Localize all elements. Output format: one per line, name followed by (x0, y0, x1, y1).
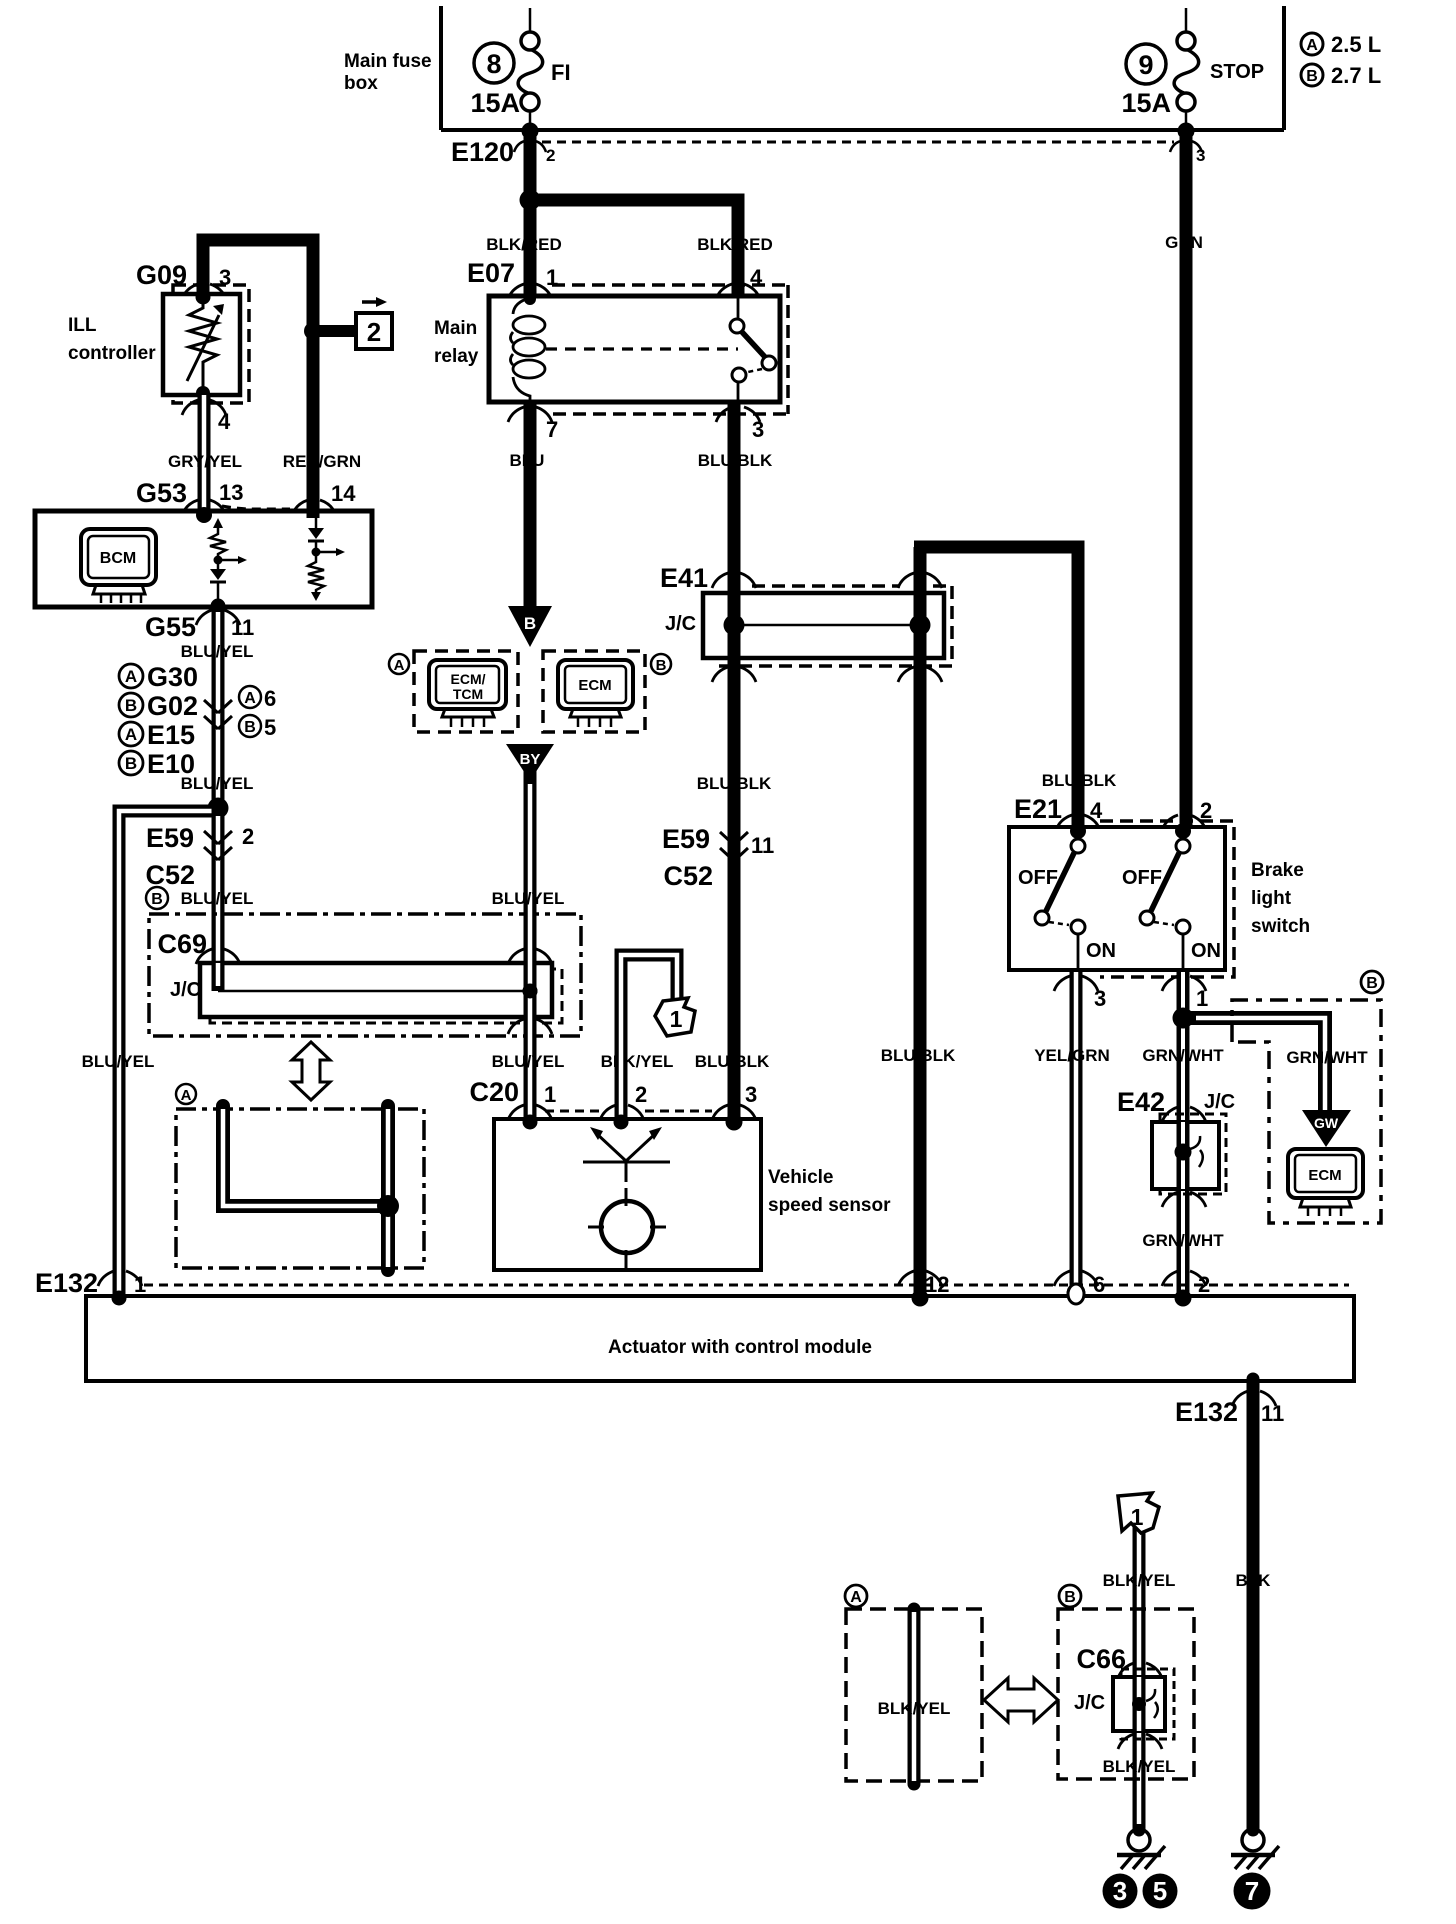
hooks at E42 exit (1162, 1192, 1206, 1207)
svg-text:14: 14 (331, 481, 356, 506)
hooks at C69 right wire entry (508, 949, 552, 964)
svg-text:BLU/YEL: BLU/YEL (181, 642, 254, 661)
wire: thick double vertical inside region A (381, 1106, 395, 1270)
connector stack labels: circled A G30 (119, 664, 143, 688)
svg-text:ON: ON (1086, 940, 1116, 962)
legend circled A 2.5 L (1301, 33, 1323, 55)
svg-text:speed sensor: speed sensor (768, 1195, 891, 1216)
E42 J/C solid box (1152, 1122, 1219, 1189)
svg-text:E21: E21 (1014, 794, 1062, 824)
svg-text:BLU/BLK: BLU/BLK (697, 774, 772, 793)
svg-text:E132: E132 (35, 1268, 98, 1298)
ECM/TCM dashed box (414, 651, 518, 732)
circled B (right region) (1361, 971, 1383, 993)
hooks at E21 pin 1 (1162, 976, 1206, 991)
svg-text:GRN/WHT: GRN/WHT (1286, 1048, 1368, 1067)
wire: GRN/WHT double from E21 pin 1 to actuator pin 2 (1177, 970, 1190, 1298)
svg-text:GRY/YEL: GRY/YEL (168, 452, 242, 471)
node: coil top pin dot (524, 293, 536, 305)
ECM module icon (B branch) (1288, 1149, 1363, 1216)
node: G09 pin 3 dot (196, 290, 211, 305)
svg-text:FI: FI (551, 60, 571, 85)
svg-text:E59: E59 (662, 824, 710, 854)
svg-text:ECM: ECM (1308, 1167, 1341, 1184)
wire: GRY/YEL double line G09 pin4 to G53 pin13 (198, 395, 211, 516)
actuator with control module box (86, 1296, 1354, 1381)
hooks at actuator pin 6 (1054, 1271, 1098, 1286)
fuse 9 feed wire (1185, 8, 1188, 33)
GW arrow (1302, 1110, 1351, 1147)
hooks at C69 left wire entry (196, 949, 240, 964)
svg-text:A: A (181, 1087, 192, 1104)
E41 connector dashed face lines (752, 584, 952, 588)
svg-text:B: B (125, 754, 137, 773)
svg-text:BLU/YEL: BLU/YEL (181, 774, 254, 793)
hooks at C66 exit (1118, 1734, 1162, 1749)
svg-text:BLU/BLK: BLU/BLK (1042, 771, 1117, 790)
main fuse box right border (1282, 6, 1286, 130)
svg-text:BLU/YEL: BLU/YEL (181, 889, 254, 908)
svg-text:BLU/YEL: BLU/YEL (82, 1052, 155, 1071)
svg-text:15A: 15A (1121, 88, 1171, 118)
svg-text:4: 4 (218, 409, 231, 434)
svg-text:C69: C69 (157, 929, 207, 959)
circled A E15 (119, 722, 143, 746)
svg-text:3: 3 (1094, 986, 1106, 1011)
wire: BLK/YEL double from flag 1 to ground via C66 (1133, 1522, 1146, 1830)
svg-text:OFF: OFF (1122, 867, 1162, 889)
YEL/GRN end loop (1068, 1284, 1084, 1304)
svg-text:E42: E42 (1117, 1087, 1165, 1117)
main fuse box bottom edge (441, 128, 1284, 132)
E42 dashed duplicate box (1160, 1114, 1226, 1194)
node: actuator pin 1 dot (112, 1291, 127, 1306)
svg-text:BLU/YEL: BLU/YEL (492, 1052, 565, 1071)
ECM module icon (558, 660, 633, 727)
wire: YEL/GRN double from E21 pin 3 to actuator pin 6 (1070, 970, 1083, 1288)
BCM box (35, 511, 372, 607)
node: fuse9 output junction dot (1178, 123, 1194, 139)
node: E120 junction dot (522, 123, 538, 139)
wire: thick double L inside region A (223, 1106, 388, 1206)
svg-text:STOP: STOP (1210, 61, 1264, 83)
svg-text:BCM: BCM (100, 550, 136, 567)
wire: BLU/BLK through E41 (left) (728, 593, 741, 658)
hooks at E07 pin 1 (508, 284, 552, 299)
svg-text:E132: E132 (1175, 1397, 1238, 1427)
svg-text:12: 12 (925, 1272, 949, 1297)
svg-text:J/C: J/C (1074, 1692, 1105, 1714)
circled B (ECM) (651, 654, 671, 674)
wire: BLU/BLK thick from E07 pin 3 down to C20 pin 3 (728, 402, 741, 1121)
svg-text:G02: G02 (147, 691, 198, 721)
svg-text:light: light (1251, 888, 1292, 909)
svg-text:11: 11 (231, 615, 254, 640)
relay switch (730, 296, 776, 402)
svg-text:11: 11 (1261, 1401, 1284, 1426)
wire: GRN/WHT double branch to ECM (B) (1188, 1018, 1325, 1114)
circled B G02 (119, 693, 143, 717)
svg-text:2.7 L: 2.7 L (1331, 63, 1381, 88)
svg-text:C66: C66 (1076, 1644, 1126, 1674)
svg-text:5: 5 (264, 715, 276, 740)
hooks at G09 pin 3 (182, 284, 226, 299)
svg-text:controller: controller (68, 343, 156, 364)
svg-text:J/C: J/C (1204, 1091, 1235, 1113)
svg-text:13: 13 (219, 480, 243, 505)
BCM module icon (81, 529, 156, 603)
node: junction dot at RED/GRN branch to key 2 (304, 322, 322, 340)
svg-text:ECM/: ECM/ (451, 671, 486, 687)
vehicle speed sensor box (494, 1119, 761, 1270)
svg-text:A: A (1306, 37, 1318, 54)
hooks at pin 3 (GRN) (1170, 141, 1202, 152)
node: region A junction dot (377, 1195, 399, 1217)
svg-text:2.5 L: 2.5 L (1331, 32, 1381, 57)
sensor generator circle with ticks (588, 1201, 666, 1268)
svg-text:3: 3 (745, 1082, 757, 1107)
connector G53 dashed line pins 13-14 (222, 506, 290, 509)
E21 right switch (1140, 827, 1190, 970)
hooks at E21 pin 4 (1056, 815, 1100, 830)
node: E41 right junction dot (910, 615, 931, 636)
svg-text:BLK/YEL: BLK/YEL (601, 1052, 674, 1071)
svg-text:Main: Main (434, 318, 477, 339)
E21 left switch (1035, 827, 1085, 970)
wire: BLU/YEL double from BY arrow through C69 to C20 pin 1 (524, 770, 537, 1121)
region A dashed box (bottom) (846, 1609, 982, 1781)
fuse number circle 8 (474, 43, 514, 83)
chevron splice marks at E59/C52 (left) (204, 831, 232, 860)
svg-text:BLK/YEL: BLK/YEL (1103, 1757, 1176, 1776)
svg-text:5: 5 (1153, 1876, 1167, 1906)
fuse 8 (15A FI) symbol (521, 32, 539, 50)
svg-text:E15: E15 (147, 720, 195, 750)
ground symbol (left, BLK/YEL) (1117, 1829, 1165, 1869)
svg-text:G30: G30 (147, 662, 198, 692)
wire: branch to key box 2 (313, 325, 356, 337)
wire: BLU/YEL double from junction down to C69 (212, 808, 225, 991)
C20 connector dashed line (545, 1110, 712, 1113)
ground number ball 3 (1103, 1874, 1138, 1909)
svg-text:ECM: ECM (578, 677, 611, 694)
circled B pin 5 (239, 715, 261, 737)
svg-text:box: box (344, 73, 378, 94)
svg-text:Brake: Brake (1251, 860, 1304, 881)
ECM/TCM module icon (429, 660, 506, 727)
continuation flag 1 (at C20 BLK/YEL) (655, 998, 695, 1036)
svg-text:G55: G55 (145, 612, 196, 642)
hooks at G53 pin 13 (182, 500, 226, 515)
svg-text:ON: ON (1191, 940, 1221, 962)
hooks at E07 pin 3 (716, 407, 760, 422)
wire: BLK/YEL through C66 (1133, 1677, 1146, 1731)
wire: thick bar from E41 right top to E21 pin 4 (914, 547, 1078, 830)
svg-text:C20: C20 (469, 1077, 519, 1107)
connector E120 dashed face line (514, 123, 1202, 152)
node: GRN/WHT branch junction dot (1173, 1008, 1194, 1029)
hooks at C20 pin 1 (508, 1105, 552, 1120)
continuation flag 1 (bottom) (1118, 1493, 1159, 1533)
wire: BLU/BLK through E41 (right) to actuator pin 12 (914, 547, 927, 1298)
C69 J/C solid box (200, 963, 552, 1017)
svg-text:Main fuse: Main fuse (344, 51, 432, 72)
node: G55 pin 11 dot (211, 599, 226, 614)
svg-text:ILL: ILL (68, 315, 97, 336)
hooks at E42 entry (1162, 1107, 1206, 1122)
svg-text:GRN: GRN (1165, 233, 1203, 252)
hooks at actuator pin 12 (898, 1271, 942, 1286)
node: BLU/YEL junction dot (208, 798, 229, 819)
wire: BLU thick from E07 pin 7 to B arrow (524, 402, 537, 610)
E41 internal bus line (734, 624, 920, 627)
ECM dashed box (543, 651, 645, 732)
hooks at E21 pin 3 (1054, 976, 1098, 991)
E41 dashed duplicate box right/bottom (712, 586, 952, 666)
svg-text:Vehicle: Vehicle (768, 1167, 834, 1188)
wire: GRN thick from fuse 9 to E21 pin 2 (1180, 130, 1193, 830)
relay coil (511, 298, 546, 402)
circled B (bottom region) (1059, 1585, 1081, 1607)
svg-text:C52: C52 (145, 860, 195, 890)
main fuse box left border (439, 6, 443, 130)
svg-text:B: B (244, 719, 256, 736)
svg-text:2: 2 (546, 146, 555, 165)
region B dashed box (bottom) (1058, 1609, 1194, 1779)
svg-text:11: 11 (751, 833, 774, 858)
C69 outer dash-dot box (149, 914, 581, 1036)
svg-text:BLK: BLK (1236, 1571, 1272, 1590)
svg-text:BLK/YEL: BLK/YEL (878, 1699, 951, 1718)
relay actuation dashed line (546, 347, 738, 350)
hooks at G09 pin 4 (182, 400, 226, 415)
svg-text:GRN/WHT: GRN/WHT (1142, 1046, 1224, 1065)
svg-text:switch: switch (1251, 916, 1310, 937)
node: C20 pin 3 dot (726, 1114, 743, 1131)
hooks at E41 left wire top (712, 573, 756, 588)
svg-text:E07: E07 (467, 258, 515, 288)
wire: BLK/YEL double stub inside region A (908, 1609, 921, 1784)
svg-text:GW: GW (1314, 1115, 1339, 1131)
wire: thick branch bar to E07 pin 4 (528, 200, 738, 296)
svg-text:1: 1 (670, 1006, 683, 1032)
wire: BLK/YEL n-loop from C20 pin 2 (621, 955, 677, 1121)
svg-text:YEL/GRN: YEL/GRN (1034, 1046, 1110, 1065)
node: C66 junction dot with tails (1132, 1697, 1146, 1711)
hooks at G53 pin 14 (292, 500, 336, 515)
C66 dashed duplicate box (1121, 1669, 1174, 1739)
C69 internal bus line (218, 990, 530, 993)
C66 J/C solid box (1113, 1677, 1165, 1731)
svg-text:E41: E41 (660, 563, 708, 593)
hooks at E07 pin 7 (508, 407, 552, 422)
fuse 9 (15A STOP) symbol (1177, 32, 1195, 50)
hooks at C66 entry (1118, 1663, 1162, 1678)
circled A pin 6 (239, 686, 261, 708)
svg-text:BLU/YEL: BLU/YEL (492, 889, 565, 908)
ground symbol (right, BLK) (1231, 1829, 1279, 1869)
node: actuator pin 12 dot (912, 1290, 929, 1307)
BY arrow (506, 744, 554, 781)
wire: thick loop from G09 pin 3 up over to RED/GRN (203, 240, 313, 515)
main relay box E07 (489, 296, 780, 402)
svg-text:E59: E59 (146, 823, 194, 853)
svg-text:BY: BY (520, 751, 541, 768)
sensor symbol arrows (583, 1134, 670, 1206)
node: actuator pin 2 dot (1175, 1290, 1192, 1307)
E41 J/C solid box (703, 593, 944, 658)
fuse 8 feed wire (529, 8, 532, 33)
svg-text:2: 2 (242, 824, 254, 849)
circled A (bottom region) (845, 1585, 867, 1607)
svg-text:15A: 15A (470, 88, 520, 118)
hooks at E21 pin 2 (1162, 815, 1206, 830)
E21 connector dashed outline (1100, 821, 1234, 977)
svg-text:BLK/RED: BLK/RED (697, 235, 773, 254)
circled B (C52 left) (146, 887, 168, 909)
svg-text:B: B (151, 891, 163, 908)
wire: RED/GRN stub into BCM (307, 509, 320, 518)
YEL/GRN loop at actuator pin 6 (redraw) (1068, 1284, 1084, 1304)
svg-text:BLK/RED: BLK/RED (486, 235, 562, 254)
wire: BLU/YEL double from G55 to junction (212, 607, 225, 808)
hooks at G55 pin 11 (196, 610, 240, 625)
ground number ball 5 (1143, 1874, 1178, 1909)
BCM right internal chain: diode, node, arrow, resistor (308, 518, 336, 592)
node: junction dot below E120 (520, 190, 541, 211)
circled A (left) (176, 1084, 196, 1104)
hooks at E120 pin 2 (514, 141, 546, 152)
ILL controller box G09 (163, 294, 240, 395)
node: G09 pin 4 (196, 386, 210, 400)
svg-text:1: 1 (1131, 1504, 1144, 1530)
svg-text:A: A (394, 657, 405, 674)
hooks at C20 pin 2 (600, 1105, 644, 1120)
region B dash-dot outline (1232, 1000, 1381, 1223)
circled A (ECM/TCM) (389, 654, 409, 674)
C69 J/C dashed duplicate box (210, 969, 562, 1023)
hooks at C69 right wire exit (508, 1019, 552, 1034)
G09 connector dashed box (173, 285, 249, 403)
hooks at E41 right wire bottom (898, 667, 942, 682)
svg-text:A: A (125, 725, 137, 744)
hooks at E132 pin 11 (1232, 1391, 1276, 1406)
chevron splice marks on BLU/YEL wire (G30/G02/E15/E10) (204, 700, 232, 729)
node: E21 pin 2 entry dot (1175, 823, 1191, 839)
hollow vertical double arrow (292, 1042, 330, 1100)
svg-text:A: A (244, 690, 256, 707)
actuator connector dashed line (144, 1284, 1349, 1287)
node: C20 pin 2 dot (614, 1115, 629, 1130)
svg-text:2: 2 (635, 1082, 647, 1107)
hooks at actuator pin 2 (1162, 1271, 1206, 1286)
svg-text:BLK/YEL: BLK/YEL (1103, 1571, 1176, 1590)
node: C69 junction dot (redraw over wire) (523, 984, 538, 999)
svg-text:BLU/BLK: BLU/BLK (698, 451, 773, 470)
node: C20 pin 1 dot (523, 1115, 538, 1130)
wire: BLK thick from E132 pin 11 to ground (1247, 1379, 1260, 1830)
svg-text:B: B (524, 614, 536, 633)
svg-text:A: A (125, 667, 137, 686)
node: E42 junction dot with tails (1175, 1144, 1192, 1161)
svg-text:B: B (1306, 68, 1318, 85)
svg-text:RED/GRN: RED/GRN (283, 452, 361, 471)
svg-text:2: 2 (1198, 1272, 1210, 1297)
hollow horizontal double arrow (984, 1678, 1058, 1722)
chevron splice marks at E59/C52 (right) (720, 832, 748, 861)
wire: GRN/WHT through E42 (1177, 1122, 1190, 1189)
svg-text:8: 8 (486, 49, 501, 79)
B arrow (508, 606, 552, 647)
svg-text:3: 3 (1113, 1876, 1127, 1906)
svg-text:relay: relay (434, 346, 479, 367)
svg-text:1: 1 (134, 1272, 146, 1297)
svg-text:9: 9 (1138, 50, 1153, 80)
svg-text:TCM: TCM (453, 686, 483, 702)
hooks at E41 left wire bottom (712, 667, 756, 682)
svg-text:BLU/BLK: BLU/BLK (881, 1046, 956, 1065)
circled B E10 (119, 751, 143, 775)
svg-text:E120: E120 (451, 137, 514, 167)
hooks at actuator pin 1 (98, 1271, 142, 1286)
hooks at E41 right wire top (898, 573, 942, 588)
key box 2 with arrow (356, 302, 392, 349)
svg-text:J/C: J/C (665, 613, 696, 635)
svg-text:J/C: J/C (170, 979, 201, 1001)
node: E41 left junction dot (724, 615, 745, 636)
legend circled B 2.7 L (1301, 64, 1323, 86)
svg-text:Actuator with control module: Actuator with control module (608, 1337, 872, 1358)
node: G53 pin 13 dot on BCM edge (196, 507, 212, 523)
svg-text:B: B (125, 696, 137, 715)
hooks at C20 pin 3 (712, 1105, 756, 1120)
rheostat symbol inside G09 (187, 296, 219, 393)
node: C69 junction dot (523, 984, 538, 999)
svg-text:B: B (1064, 1589, 1076, 1606)
svg-text:6: 6 (264, 686, 276, 711)
svg-text:GRN/WHT: GRN/WHT (1142, 1231, 1224, 1250)
BCM left internal chain: arrow, resistor, node, diode (210, 528, 238, 608)
svg-text:2: 2 (367, 317, 381, 347)
E07 connector dashed box (552, 285, 788, 414)
ground number ball 7 (1234, 1873, 1271, 1910)
svg-text:G53: G53 (136, 478, 187, 508)
svg-text:BLU: BLU (510, 451, 545, 470)
svg-text:B: B (1366, 975, 1378, 992)
svg-text:B: B (656, 657, 667, 674)
svg-text:7: 7 (1245, 1876, 1259, 1906)
hooks at E07 pin 4 (716, 284, 760, 299)
wire: BLU/YEL double branch to left and down to E132 pin 1 (119, 811, 218, 1298)
brake light switch box E21 (1009, 827, 1225, 970)
node: E21 pin 4 entry dot (1070, 823, 1086, 839)
svg-text:BLU/BLK: BLU/BLK (695, 1052, 770, 1071)
svg-text:6: 6 (1093, 1272, 1105, 1297)
svg-text:C52: C52 (663, 861, 713, 891)
svg-text:A: A (850, 1589, 862, 1606)
wire: left BLU/YEL into C69 (212, 963, 225, 991)
svg-text:OFF: OFF (1018, 867, 1058, 889)
svg-text:3: 3 (1196, 146, 1205, 165)
region A dash-dot box (near actuator) (176, 1109, 424, 1268)
wire: BLK/RED thick from E120 down + branch bar to pin 4 (524, 130, 537, 296)
fuse number circle 9 (1126, 44, 1166, 84)
svg-text:1: 1 (544, 1082, 556, 1107)
